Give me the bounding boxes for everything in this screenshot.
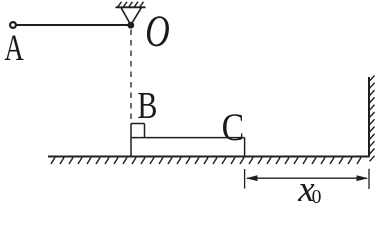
svg-text:B: B <box>137 85 157 127</box>
svg-text:0: 0 <box>312 187 322 203</box>
svg-text:O: O <box>145 6 170 55</box>
svg-text:A: A <box>4 27 24 68</box>
svg-text:C: C <box>222 106 245 149</box>
